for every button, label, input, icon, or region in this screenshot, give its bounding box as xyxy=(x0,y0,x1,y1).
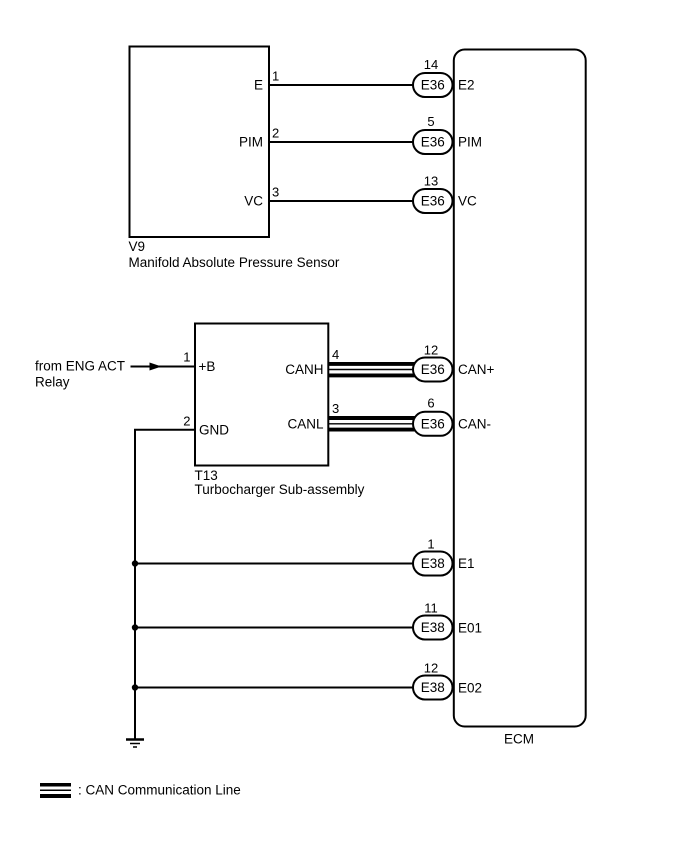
wire E01 (ground bus to E38-11) xyxy=(135,627,420,629)
svg-text:11: 11 xyxy=(424,600,438,615)
svg-text:E36: E36 xyxy=(421,416,445,431)
svg-text:E2: E2 xyxy=(458,78,475,93)
ECM box xyxy=(454,50,586,727)
CAN wire CANL (T13 pin3 to E36-6) xyxy=(328,418,420,430)
wire PIM (V9 pin2 to E36-5) xyxy=(267,141,420,143)
svg-text:Turbocharger Sub-assembly: Turbocharger Sub-assembly xyxy=(195,482,365,497)
svg-text:6: 6 xyxy=(427,396,434,411)
junction dot E1 xyxy=(132,560,138,566)
svg-text:12: 12 xyxy=(424,343,438,358)
svg-text:2: 2 xyxy=(272,126,279,141)
wire VC (V9 pin3 to E36-13) xyxy=(267,200,420,202)
svg-text:E36: E36 xyxy=(421,362,445,377)
svg-text:E01: E01 xyxy=(458,620,482,635)
wire +B (from ENG ACT Relay to T13 pin1) xyxy=(131,366,197,368)
svg-text:E36: E36 xyxy=(421,135,445,150)
svg-text:13: 13 xyxy=(424,174,438,189)
svg-text:PIM: PIM xyxy=(239,135,263,150)
svg-text:14: 14 xyxy=(424,57,438,72)
svg-text:E38: E38 xyxy=(421,620,445,635)
svg-text:VC: VC xyxy=(458,194,477,209)
connector E36 pin12 xyxy=(413,358,453,382)
wire E1 (ground bus to E38-1) xyxy=(135,563,420,565)
wire E02 (ground bus to E38-12) xyxy=(135,687,420,689)
CAN wire CANH (T13 pin4 to E36-12) xyxy=(328,364,420,376)
connector E36 pin14 xyxy=(413,73,453,97)
svg-text:E38: E38 xyxy=(421,556,445,571)
svg-text:Relay: Relay xyxy=(35,375,70,390)
junction dot E02 xyxy=(132,684,138,690)
box T13 Turbocharger Sub-assembly xyxy=(195,324,328,466)
wire GND (T13 pin2 to ground bus) xyxy=(135,430,196,739)
svg-text:CAN+: CAN+ xyxy=(458,362,495,377)
svg-text:2: 2 xyxy=(183,414,190,429)
svg-text:V9: V9 xyxy=(129,239,146,254)
svg-text:1: 1 xyxy=(272,69,279,84)
svg-text:4: 4 xyxy=(332,347,339,362)
svg-text:3: 3 xyxy=(332,401,339,416)
svg-text:E: E xyxy=(254,78,263,93)
connector E36 pin13 xyxy=(413,189,453,213)
svg-text:5: 5 xyxy=(427,114,434,129)
svg-text:: CAN Communication Line: : CAN Communication Line xyxy=(78,783,241,798)
svg-text:E36: E36 xyxy=(421,194,445,209)
svg-text:+B: +B xyxy=(199,359,216,374)
svg-text:3: 3 xyxy=(272,185,279,200)
svg-text:E38: E38 xyxy=(421,680,445,695)
svg-text:VC: VC xyxy=(244,194,263,209)
svg-text:CAN-: CAN- xyxy=(458,416,491,431)
svg-text:Manifold Absolute Pressure Sen: Manifold Absolute Pressure Sensor xyxy=(129,255,340,270)
wire E (V9 pin1 to E36-14) xyxy=(267,84,420,86)
box V9 Manifold Absolute Pressure Sensor xyxy=(130,47,270,238)
svg-text:PIM: PIM xyxy=(458,135,482,150)
svg-text:12: 12 xyxy=(424,660,438,675)
svg-text:T13: T13 xyxy=(195,468,218,483)
svg-text:CANL: CANL xyxy=(287,416,324,431)
svg-text:CANH: CANH xyxy=(285,362,323,377)
svg-text:1: 1 xyxy=(183,350,190,365)
ground symbol xyxy=(126,740,144,748)
connector E36 pin6 xyxy=(413,412,453,436)
svg-text:E02: E02 xyxy=(458,680,482,695)
connector E36 pin5 xyxy=(413,130,453,154)
svg-text:from ENG ACT: from ENG ACT xyxy=(35,359,125,374)
svg-text:GND: GND xyxy=(199,422,229,437)
svg-text:E36: E36 xyxy=(421,78,445,93)
connector E38 pin11 xyxy=(413,616,453,640)
svg-text:ECM: ECM xyxy=(504,732,534,747)
legend CAN communication line symbol xyxy=(40,785,71,796)
junction dot E01 xyxy=(132,624,138,630)
svg-text:1: 1 xyxy=(427,537,434,552)
connector E38 pin1 xyxy=(413,552,453,576)
connector E38 pin12 xyxy=(413,676,453,700)
arrow on +B wire xyxy=(150,363,162,371)
svg-text:E1: E1 xyxy=(458,556,475,571)
